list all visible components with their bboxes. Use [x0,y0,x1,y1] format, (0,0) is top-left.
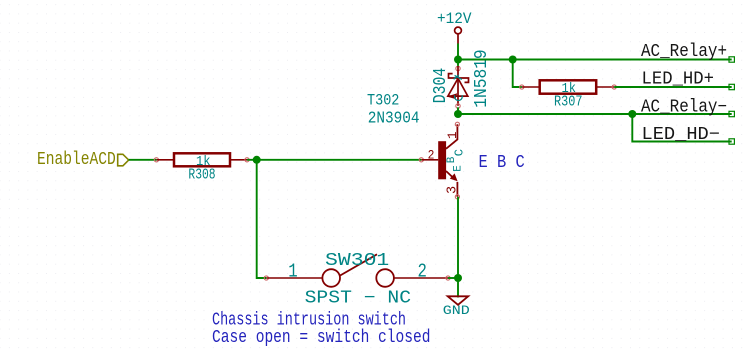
svg-text:+12V: +12V [437,10,472,28]
node F junction [454,274,462,282]
svg-text:Case open = switch closed: Case open = switch closed [212,328,431,348]
wire node A to node B [458,59,513,61]
node A junction [454,56,462,64]
svg-text:EnableACD: EnableACD [37,150,116,170]
ground [443,296,470,318]
svg-text:3: 3 [446,186,461,194]
wire AC_Relay- [458,113,732,115]
node B junction [509,56,517,64]
svg-text:2: 2 [418,261,427,283]
dangling end square AC_Relay- [729,111,734,116]
wire switch to node F [448,277,458,279]
wire power to node A [457,44,459,67]
svg-text:D304: D304 [431,68,451,104]
svg-text:R308: R308 [188,167,215,183]
svg-text:LED_HD−: LED_HD− [642,125,721,145]
svg-text:GND: GND [443,303,470,318]
wire EnableACD to R308 [129,159,157,161]
node E junction [253,156,261,164]
power +12V [437,10,472,44]
svg-text:R307: R307 [554,95,583,111]
svg-text:SW301: SW301 [325,251,389,271]
svg-text:1: 1 [446,131,460,139]
node C junction [454,110,462,118]
dangling end square AC_Relay+ [729,57,734,62]
pin name A (diode, tiny) [455,95,463,100]
svg-text:AC_Relay−: AC_Relay− [641,98,727,118]
wire node F to ground [457,278,459,298]
wire AC_Relay+ [513,59,732,61]
wire over 1N5819 [476,59,494,61]
svg-text:2N3904: 2N3904 [368,108,420,127]
svg-text:1: 1 [288,261,297,283]
svg-text:AC_Relay+: AC_Relay+ [641,42,727,62]
dangling end square LED_HD+ [729,84,734,89]
transistor T302 [419,122,459,199]
wire node B to R307 [513,60,522,88]
dangling end square LED_HD- [729,139,734,144]
svg-text:E B C: E B C [479,153,525,173]
svg-text:B: B [446,156,458,163]
svg-text:SPST − NC: SPST − NC [305,288,412,308]
wire emitter down [457,197,459,278]
svg-text:E: E [452,165,464,172]
wire R308 to base [247,159,421,161]
switch SW301 [264,254,450,287]
hierarchical label EnableACD [37,150,129,170]
svg-text:T302: T302 [367,92,399,110]
node D junction [628,110,636,118]
wire LED_HD- [632,114,731,142]
svg-text:1N5819: 1N5819 [472,49,492,108]
wire diode to node C [457,107,459,114]
wire node E down to switch [257,160,267,278]
svg-text:C: C [452,149,466,156]
diode D304 [447,66,469,108]
pin name K (diode, tiny) [454,75,462,79]
resistor R308 [154,153,249,166]
svg-text:LED_HD+: LED_HD+ [642,70,715,90]
svg-text:2: 2 [428,148,435,163]
wire LED_HD+ [614,86,732,88]
resistor R307 [520,80,617,93]
